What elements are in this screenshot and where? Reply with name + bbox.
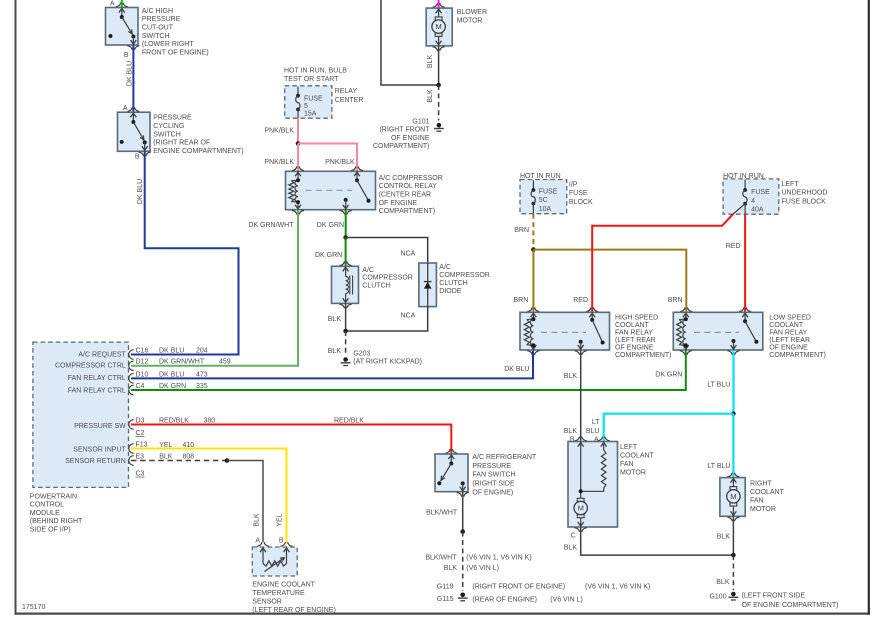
wire BLK from top edge elbow to splice bbox=[381, 0, 439, 85]
svg-text:RED/BLK: RED/BLK bbox=[159, 418, 189, 425]
wire DK GRN/WHT 459 from relay coil to PCM pin D12 bbox=[131, 210, 298, 366]
svg-text:FAN RELAY CTRL: FAN RELAY CTRL bbox=[68, 388, 126, 395]
svg-text:FAN RELAY: FAN RELAY bbox=[615, 330, 653, 337]
svg-text:4: 4 bbox=[751, 198, 755, 205]
PCM pin D12 compressor ctrl bbox=[129, 361, 134, 371]
wire BLK from splice to coolant temperature sensor A bbox=[227, 461, 263, 543]
pressure cycling switch internals bbox=[131, 113, 137, 117]
connector at clutch bottom bbox=[340, 304, 345, 308]
svg-text:BLOCK: BLOCK bbox=[569, 199, 593, 206]
svg-text:(V6 VIN 1, V6 VIN K): (V6 VIN 1, V6 VIN K) bbox=[466, 555, 531, 562]
splice above G100 bbox=[731, 553, 736, 558]
splice on BRN wire bbox=[531, 247, 536, 252]
wire BRN from splice to high speed relay coil bbox=[532, 250, 534, 313]
svg-text:SENSOR INPUT: SENSOR INPUT bbox=[73, 446, 126, 453]
svg-text:FUSE: FUSE bbox=[304, 95, 323, 102]
svg-text:FRONT OF ENGINE): FRONT OF ENGINE) bbox=[142, 49, 209, 56]
svg-text:(RIGHT FRONT: (RIGHT FRONT bbox=[379, 127, 430, 134]
svg-text:COMPRESSOR CTRL: COMPRESSOR CTRL bbox=[55, 362, 126, 369]
wire YEL 410 from PCM F13 to coolant temperature sensor B bbox=[131, 449, 287, 543]
ground G100 bbox=[731, 592, 736, 597]
svg-text:G203: G203 bbox=[353, 351, 370, 358]
wire magenta stub at top to blower motor bbox=[438, 0, 440, 8]
wire LT BLU from splice to right fan motor bbox=[732, 414, 734, 478]
svg-text:BLK: BLK bbox=[717, 534, 731, 541]
svg-text:175170: 175170 bbox=[22, 604, 45, 611]
A/C compressor clutch diode symbol bbox=[427, 263, 429, 307]
svg-text:CYCLING: CYCLING bbox=[153, 123, 184, 130]
svg-text:DK GRN: DK GRN bbox=[655, 372, 682, 379]
svg-text:I/P: I/P bbox=[569, 182, 578, 189]
svg-text:BLK: BLK bbox=[716, 579, 730, 586]
svg-text:(V6 VIN L): (V6 VIN L) bbox=[466, 565, 499, 572]
connector at high speed relay switch output bbox=[575, 351, 580, 355]
left fan motor M symbol bbox=[577, 498, 584, 501]
svg-text:C3: C3 bbox=[136, 471, 145, 478]
low speed coolant fan relay box bbox=[673, 312, 763, 350]
svg-text:CLUTCH: CLUTCH bbox=[362, 282, 390, 289]
svg-text:COMPARTMENT): COMPARTMENT) bbox=[769, 352, 826, 359]
svg-text:SIDE OF I/P): SIDE OF I/P) bbox=[30, 527, 71, 534]
splice on PNK/BLK wire bbox=[296, 141, 301, 146]
connector B of pressure cycling switch bbox=[139, 152, 144, 156]
svg-text:BLK: BLK bbox=[564, 544, 578, 551]
A/C compressor control relay coil bbox=[295, 172, 301, 176]
svg-text:SENSOR: SENSOR bbox=[252, 598, 282, 605]
connector at right fan motor top bbox=[727, 473, 732, 477]
svg-text:G100: G100 bbox=[709, 593, 726, 600]
wire DK BLU from high pressure switch B to pressure cycling switch A bbox=[132, 45, 134, 112]
svg-text:(LEFT REAR: (LEFT REAR bbox=[615, 337, 656, 344]
svg-text:204: 204 bbox=[196, 348, 208, 355]
A/C compressor clutch coil symbol bbox=[343, 267, 349, 271]
wire BRN branch from splice to low speed relay coil bbox=[533, 250, 686, 313]
svg-text:BRN: BRN bbox=[668, 297, 683, 304]
svg-text:NCA: NCA bbox=[401, 251, 416, 258]
PCM pin E3 sensor return bbox=[129, 456, 134, 466]
svg-text:FAN: FAN bbox=[750, 498, 764, 505]
svg-text:BLK: BLK bbox=[328, 316, 342, 323]
svg-text:NCA: NCA bbox=[401, 312, 416, 319]
wire BLK from diode bottom to splice bbox=[346, 307, 428, 331]
svg-text:(LEFT REAR: (LEFT REAR bbox=[769, 337, 810, 344]
powertrain control module dashed box bbox=[33, 342, 129, 487]
svg-text:D10: D10 bbox=[136, 371, 149, 378]
svg-text:LOW SPEED: LOW SPEED bbox=[769, 315, 811, 322]
low speed relay coil bbox=[683, 313, 689, 317]
fuse 4 element 40A bbox=[744, 180, 746, 190]
svg-text:A/C: A/C bbox=[362, 267, 374, 274]
wire DK GRN 335 from PCM C4 to low speed fan relay bbox=[131, 350, 686, 390]
svg-text:(BEHIND RIGHT: (BEHIND RIGHT bbox=[30, 518, 83, 525]
svg-text:HOT IN RUN, BULB: HOT IN RUN, BULB bbox=[284, 68, 347, 75]
svg-text:40A: 40A bbox=[751, 207, 764, 214]
wire BLK/WHT from switch to splice bbox=[462, 492, 464, 532]
svg-text:COOLANT: COOLANT bbox=[750, 489, 785, 496]
svg-text:PRESSURE: PRESSURE bbox=[142, 16, 181, 23]
svg-text:BLK/WHT: BLK/WHT bbox=[426, 509, 458, 516]
connector at blower motor top bbox=[433, 3, 438, 7]
wire BLK dashed from splice to G203 bbox=[345, 331, 347, 356]
connector at blower motor bottom bbox=[433, 47, 438, 51]
svg-text:PRESSURE: PRESSURE bbox=[153, 115, 192, 122]
svg-text:BRN: BRN bbox=[514, 297, 529, 304]
svg-text:FUSE: FUSE bbox=[569, 190, 588, 197]
right fan motor internals bbox=[731, 479, 737, 483]
page frame right border bbox=[868, 0, 870, 615]
A/C compressor clutch diode box bbox=[419, 263, 437, 307]
connector B of A/C high pressure cut-out switch bbox=[127, 46, 132, 50]
engine coolant temperature sensor dashed box bbox=[252, 547, 297, 576]
PCM pin C16 A/C request bbox=[129, 350, 134, 360]
svg-text:BLK: BLK bbox=[427, 55, 434, 69]
blower motor internals bbox=[436, 9, 442, 13]
svg-text:(V6 VIN 1, V6 VIN K): (V6 VIN 1, V6 VIN K) bbox=[585, 583, 650, 590]
A/C high pressure cut-out switch box bbox=[106, 8, 139, 46]
svg-text:A/C REFRIGERANT: A/C REFRIGERANT bbox=[472, 454, 537, 461]
pressure cycling switch box bbox=[118, 112, 151, 151]
wire BLK from clutch to splice bbox=[345, 303, 347, 331]
splice below clutch bbox=[343, 329, 348, 334]
svg-text:(LEFT FRONT SIDE: (LEFT FRONT SIDE bbox=[742, 593, 806, 600]
svg-text:M: M bbox=[730, 492, 736, 501]
svg-text:MOTOR: MOTOR bbox=[750, 506, 776, 513]
svg-text:A: A bbox=[123, 105, 128, 112]
svg-text:(RIGHT SIDE: (RIGHT SIDE bbox=[472, 481, 515, 488]
PCM pin C4 fan relay ctrl bbox=[129, 385, 134, 395]
connector A of coolant temperature sensor bbox=[257, 542, 262, 546]
fuse 5 relay center dashed box bbox=[285, 86, 332, 118]
connector at low speed relay switch output bbox=[727, 351, 732, 355]
svg-text:A: A bbox=[110, 1, 115, 8]
svg-text:SWITCH: SWITCH bbox=[142, 33, 170, 40]
wire RED/BLK 380 from PCM D3 to refrigerant pressure fan switch bbox=[131, 425, 451, 455]
wire BLK from left fan motor C to splice above G100 bbox=[581, 527, 734, 555]
svg-text:DK BLU: DK BLU bbox=[137, 179, 144, 204]
svg-text:DK BLU: DK BLU bbox=[504, 366, 529, 373]
wire LT BLU branch from splice to left fan motor A bbox=[604, 414, 734, 442]
svg-text:(REAR OF ENGINE): (REAR OF ENGINE) bbox=[472, 596, 537, 603]
svg-text:FUSE BLOCK: FUSE BLOCK bbox=[782, 198, 827, 205]
A/C compressor control relay dashed link bbox=[306, 189, 353, 191]
svg-text:OF ENGINE: OF ENGINE bbox=[391, 135, 430, 142]
svg-text:5C: 5C bbox=[539, 197, 548, 204]
svg-text:C16: C16 bbox=[136, 348, 149, 355]
svg-text:CENTER: CENTER bbox=[335, 97, 364, 104]
svg-text:E3: E3 bbox=[136, 453, 145, 460]
wire BLK from high speed relay to left coolant fan motor B bbox=[580, 350, 582, 442]
svg-text:LT BLU: LT BLU bbox=[707, 463, 730, 470]
connector at high speed relay coil output bbox=[527, 351, 532, 355]
engine coolant temperature sensor internals bbox=[260, 548, 266, 552]
connector at high speed relay coil input bbox=[527, 307, 532, 311]
right fan motor M symbol bbox=[730, 487, 737, 490]
svg-text:FUSE: FUSE bbox=[539, 189, 558, 196]
wire DK GRN from splice to clutch bbox=[345, 238, 347, 266]
svg-text:COMPRESSOR: COMPRESSOR bbox=[439, 272, 490, 279]
blower motor M symbol bbox=[435, 17, 442, 20]
svg-text:473: 473 bbox=[196, 371, 208, 378]
wire PNK/BLK from fuse 5 to splice bbox=[297, 118, 299, 143]
wire RED branch from fuse 4 to high speed relay switch bbox=[592, 214, 733, 312]
wire DK GRN from relay switch to splice above clutch bbox=[345, 210, 347, 238]
svg-text:BLK: BLK bbox=[159, 453, 173, 460]
wire BLK from splice to clutch diode bbox=[346, 238, 428, 264]
connector at relay coil output bbox=[292, 210, 297, 214]
svg-text:A/C COMPRESSOR: A/C COMPRESSOR bbox=[379, 175, 443, 182]
svg-text:COOLANT: COOLANT bbox=[620, 453, 655, 460]
svg-text:RED: RED bbox=[726, 243, 741, 250]
svg-text:DK GRN/WHT: DK GRN/WHT bbox=[159, 359, 205, 366]
svg-text:MOTOR: MOTOR bbox=[457, 17, 483, 24]
svg-text:BLK: BLK bbox=[564, 373, 578, 380]
svg-text:UNDERHOOD: UNDERHOOD bbox=[782, 190, 828, 197]
svg-text:MOTOR: MOTOR bbox=[620, 470, 646, 477]
svg-text:(RIGHT REAR OF: (RIGHT REAR OF bbox=[153, 140, 210, 147]
svg-text:(LEFT REAR OF ENGINE): (LEFT REAR OF ENGINE) bbox=[252, 607, 335, 614]
svg-text:TEST OR START: TEST OR START bbox=[284, 76, 339, 83]
connector at right fan motor bottom bbox=[727, 517, 732, 521]
connector at relay switch output bbox=[340, 210, 345, 214]
svg-text:808: 808 bbox=[183, 453, 195, 460]
svg-text:D12: D12 bbox=[136, 359, 149, 366]
connector B of left fan motor bbox=[575, 437, 580, 441]
svg-text:459: 459 bbox=[219, 359, 231, 366]
svg-text:FAN RELAY CTRL: FAN RELAY CTRL bbox=[68, 375, 126, 382]
left underhood fuse block dashed box bbox=[723, 179, 779, 214]
wire RED from fuse 4 to low speed relay switch bbox=[744, 214, 746, 312]
connector at refrigerant pressure fan switch bottom bbox=[457, 492, 462, 496]
splice on BLK/WHT wire bbox=[460, 529, 465, 534]
fuse 5C element 10A bbox=[532, 180, 534, 190]
svg-text:BLK: BLK bbox=[444, 565, 458, 572]
svg-text:SWITCH: SWITCH bbox=[153, 131, 181, 138]
svg-text:OF ENGINE: OF ENGINE bbox=[769, 345, 808, 352]
svg-text:B: B bbox=[135, 154, 140, 161]
high speed relay switch bbox=[589, 313, 595, 317]
svg-text:FAN RELAY: FAN RELAY bbox=[769, 330, 807, 337]
svg-text:CONTROL: CONTROL bbox=[30, 502, 64, 509]
svg-text:A/C REQUEST: A/C REQUEST bbox=[78, 352, 126, 359]
svg-text:PNK/BLK: PNK/BLK bbox=[264, 159, 294, 166]
svg-text:(AT RIGHT KICKPAD): (AT RIGHT KICKPAD) bbox=[353, 359, 422, 366]
splice above A/C compressor clutch bbox=[343, 235, 348, 240]
svg-text:(LOWER RIGHT: (LOWER RIGHT bbox=[142, 41, 194, 48]
A/C compressor clutch box bbox=[332, 266, 359, 303]
blower motor box bbox=[426, 8, 452, 46]
svg-text:BLK: BLK bbox=[564, 428, 578, 435]
svg-text:BLU: BLU bbox=[586, 428, 600, 435]
connector at relay coil input bbox=[292, 166, 297, 170]
svg-text:SENSOR RETURN: SENSOR RETURN bbox=[65, 458, 126, 465]
page frame bottom border bbox=[15, 612, 870, 614]
svg-text:PNK/BLK: PNK/BLK bbox=[325, 159, 355, 166]
svg-text:B: B bbox=[124, 52, 129, 59]
svg-text:PRESSURE SW: PRESSURE SW bbox=[74, 423, 126, 430]
ground G203 bbox=[343, 357, 348, 362]
splice above G101 bbox=[436, 83, 441, 88]
high speed relay coil bbox=[531, 313, 537, 317]
svg-text:C: C bbox=[571, 533, 576, 540]
right coolant fan motor box bbox=[720, 478, 745, 517]
svg-text:LT: LT bbox=[592, 419, 600, 426]
connector C of left fan motor bbox=[575, 528, 580, 532]
connector at low speed relay coil output bbox=[680, 351, 685, 355]
svg-text:COMPRESSOR: COMPRESSOR bbox=[362, 275, 413, 282]
connector at low speed relay coil input bbox=[680, 307, 685, 311]
svg-text:G119: G119 bbox=[437, 583, 454, 590]
svg-text:(RIGHT FRONT OF ENGINE): (RIGHT FRONT OF ENGINE) bbox=[472, 583, 565, 590]
svg-text:YEL: YEL bbox=[276, 513, 283, 526]
connector at clutch top bbox=[340, 261, 345, 265]
wire PNK/BLK from splice to A/C compressor control relay coil bbox=[297, 144, 299, 172]
wire BLK dashed from splice to G100 bbox=[732, 555, 734, 590]
svg-text:LT BLU: LT BLU bbox=[707, 381, 730, 388]
high speed coolant fan relay box bbox=[520, 312, 610, 350]
connector at refrigerant pressure fan switch top bbox=[445, 449, 450, 453]
svg-text:OF ENGINE: OF ENGINE bbox=[615, 345, 654, 352]
PCM pin D3 pressure sw bbox=[129, 420, 134, 430]
splice on sensor return wire bbox=[225, 458, 230, 463]
svg-text:COMPARTMENT): COMPARTMENT) bbox=[615, 352, 672, 359]
wire PNK/BLK branch from splice to relay switch bbox=[298, 144, 357, 172]
PCM pin F13 sensor input bbox=[129, 444, 134, 454]
wire BLK 808 dashed from PCM E3 to splice bbox=[131, 460, 227, 462]
PCM pin D10 fan relay ctrl bbox=[129, 374, 134, 384]
connector at relay switch input bbox=[351, 166, 356, 170]
svg-text:A/C HIGH: A/C HIGH bbox=[142, 8, 173, 15]
svg-text:RED: RED bbox=[573, 297, 588, 304]
wire green stub at top to A/C high pressure switch pin A bbox=[121, 0, 123, 8]
ground G101 bbox=[437, 123, 442, 128]
svg-text:BLK: BLK bbox=[253, 513, 260, 527]
svg-text:RIGHT: RIGHT bbox=[750, 481, 773, 488]
ground G115 bbox=[460, 593, 465, 598]
wire BLK dashed from splice to G115 bbox=[462, 532, 464, 591]
svg-text:M: M bbox=[435, 22, 441, 31]
svg-text:DK GRN: DK GRN bbox=[317, 222, 344, 229]
connector B of coolant temperature sensor bbox=[280, 542, 285, 546]
wire LT BLU from low speed relay to splice bbox=[732, 350, 734, 414]
svg-text:A: A bbox=[255, 538, 260, 545]
svg-text:TEMPERATURE: TEMPERATURE bbox=[252, 590, 305, 597]
svg-text:LEFT: LEFT bbox=[620, 444, 638, 451]
svg-text:CUT-OUT: CUT-OUT bbox=[142, 25, 174, 32]
svg-text:LEFT: LEFT bbox=[782, 181, 800, 188]
wire BRN dashed from fuse 5C to splice bbox=[532, 214, 534, 250]
svg-text:FAN: FAN bbox=[620, 461, 634, 468]
svg-text:5: 5 bbox=[304, 103, 308, 110]
svg-text:CONTROL RELAY: CONTROL RELAY bbox=[379, 183, 438, 190]
svg-text:FUSE: FUSE bbox=[751, 189, 770, 196]
svg-text:(V6 VIN L): (V6 VIN L) bbox=[550, 596, 583, 603]
svg-text:(CENTER REAR: (CENTER REAR bbox=[379, 192, 432, 199]
svg-text:HIGH SPEED: HIGH SPEED bbox=[615, 315, 658, 322]
svg-text:ENGINE COMPARTMNENT): ENGINE COMPARTMNENT) bbox=[153, 148, 243, 155]
svg-text:BLK: BLK bbox=[328, 348, 342, 355]
svg-text:RELAY: RELAY bbox=[335, 88, 358, 95]
svg-text:COMPARTMENT): COMPARTMENT) bbox=[379, 208, 436, 215]
wire DK BLU 204 from cycling switch B to PCM pin C16 bbox=[131, 151, 239, 354]
svg-text:DK GRN: DK GRN bbox=[315, 252, 342, 259]
svg-text:M: M bbox=[578, 504, 584, 513]
svg-text:MODULE: MODULE bbox=[30, 510, 60, 517]
A/C compressor control relay box bbox=[286, 171, 376, 209]
svg-text:A/C: A/C bbox=[439, 264, 451, 271]
fuse 5 element 15A bbox=[297, 87, 299, 96]
svg-text:10A: 10A bbox=[539, 206, 552, 213]
svg-text:380: 380 bbox=[204, 418, 216, 425]
splice on LT BLU wire bbox=[731, 411, 736, 416]
wire DK BLU 473 from PCM D10 to high speed fan relay bbox=[131, 350, 533, 378]
svg-text:CLUTCH: CLUTCH bbox=[439, 280, 467, 287]
svg-text:15A: 15A bbox=[304, 111, 317, 118]
A/C refrigerant pressure fan switch internals bbox=[448, 455, 454, 459]
svg-text:PRESSURE: PRESSURE bbox=[472, 463, 511, 470]
A/C compressor control relay switch bbox=[354, 172, 360, 176]
svg-text:BRN: BRN bbox=[514, 227, 529, 234]
svg-text:ENGINE COOLANT: ENGINE COOLANT bbox=[252, 581, 315, 588]
svg-text:PNK/BLK: PNK/BLK bbox=[264, 127, 294, 134]
connector A of left fan motor bbox=[598, 437, 603, 441]
high speed relay dashed link bbox=[541, 331, 586, 333]
svg-text:G101: G101 bbox=[412, 118, 429, 125]
svg-text:BLOWER: BLOWER bbox=[457, 9, 487, 16]
wire BLK from blower motor to splice bbox=[438, 46, 440, 85]
low speed relay switch bbox=[742, 313, 748, 317]
svg-text:D3: D3 bbox=[136, 418, 145, 425]
IP fuse block dashed box bbox=[520, 180, 567, 214]
page frame left border bbox=[15, 0, 17, 615]
low speed relay dashed link bbox=[694, 331, 739, 333]
left fan motor internals bbox=[578, 443, 584, 447]
connector A of pressure cycling switch bbox=[127, 107, 132, 111]
svg-text:BLK: BLK bbox=[427, 89, 434, 103]
svg-text:COMPARTMENT): COMPARTMENT) bbox=[373, 143, 430, 150]
connector at high speed relay switch input bbox=[586, 307, 591, 311]
svg-text:BLK/WHT: BLK/WHT bbox=[425, 555, 457, 562]
svg-text:DIODE: DIODE bbox=[439, 288, 462, 295]
svg-text:G115: G115 bbox=[437, 596, 454, 603]
svg-text:COOLANT: COOLANT bbox=[615, 322, 650, 329]
svg-text:OF ENGINE: OF ENGINE bbox=[379, 200, 418, 207]
connector at low speed relay switch input bbox=[739, 307, 744, 311]
A/C refrigerant pressure fan switch box bbox=[435, 454, 468, 492]
svg-text:RED/BLK: RED/BLK bbox=[334, 418, 364, 425]
svg-text:DK BLU: DK BLU bbox=[127, 61, 134, 86]
A/C high pressure cut-out switch internals bbox=[119, 9, 125, 13]
connector A of A/C high pressure cut-out switch bbox=[116, 3, 121, 7]
svg-text:POWERTRAIN: POWERTRAIN bbox=[30, 493, 77, 500]
svg-text:C2: C2 bbox=[136, 430, 145, 437]
left coolant fan motor box bbox=[568, 442, 618, 528]
svg-text:B: B bbox=[279, 538, 284, 545]
wire BLK dashed from splice to G101 bbox=[438, 85, 440, 121]
wire BLK from right fan motor to splice above G100 bbox=[732, 516, 734, 555]
svg-text:FAN SWITCH: FAN SWITCH bbox=[472, 472, 515, 479]
svg-text:OF ENGINE COMPARTMENT): OF ENGINE COMPARTMENT) bbox=[742, 602, 839, 609]
svg-text:COOLANT: COOLANT bbox=[769, 322, 804, 329]
svg-text:DK GRN/WHT: DK GRN/WHT bbox=[248, 222, 294, 229]
svg-text:DK BLU: DK BLU bbox=[159, 371, 184, 378]
svg-text:OF ENGINE): OF ENGINE) bbox=[472, 489, 513, 496]
svg-text:DK BLU: DK BLU bbox=[159, 348, 184, 355]
